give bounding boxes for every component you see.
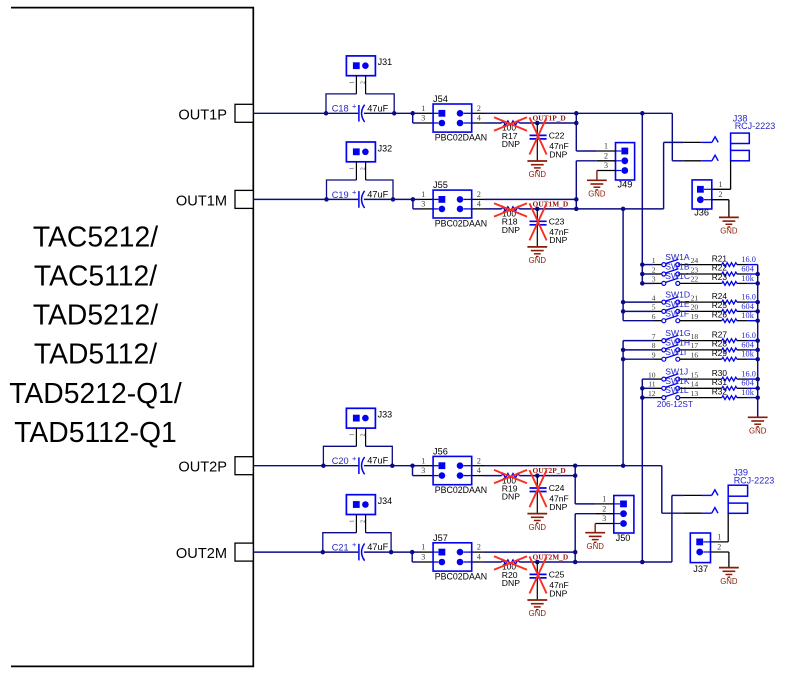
junction dots on OUT2M wire — [321, 550, 415, 555]
svg-text:4: 4 — [477, 114, 481, 123]
resistor R28 604 — [712, 339, 758, 352]
IC body outline TAC5212 family — [11, 8, 253, 667]
IC output pin OUT1M — [176, 190, 253, 209]
connector J37 2-pin header — [690, 532, 729, 573]
IC part-number text block — [9, 220, 182, 448]
bypass bracket wire around C20 — [323, 446, 392, 465]
svg-text:C19: C19 — [332, 190, 349, 200]
svg-text:3: 3 — [421, 200, 425, 209]
svg-text:18: 18 — [691, 332, 699, 341]
resistor R20 100 DNP — [502, 560, 521, 588]
ground at J50 pin3 — [585, 524, 605, 551]
svg-text:C18: C18 — [332, 104, 349, 114]
svg-text:47uF: 47uF — [367, 103, 388, 113]
svg-text:4: 4 — [477, 200, 481, 209]
switch SW1L — [642, 385, 722, 399]
svg-text:1: 1 — [349, 433, 356, 436]
svg-text:206-12ST: 206-12ST — [657, 400, 693, 409]
ground at resistor bus — [748, 417, 768, 435]
svg-text:OUT1M: OUT1M — [176, 193, 227, 209]
resistor R21 16.0 — [712, 253, 758, 266]
svg-text:RCJ-2223: RCJ-2223 — [735, 121, 776, 131]
svg-text:GND: GND — [720, 577, 738, 586]
capacitor C24 47nF DNP — [530, 473, 569, 513]
junction dot OUT2P_D column — [621, 463, 626, 468]
svg-text:PBC02DAAN: PBC02DAAN — [435, 485, 487, 495]
svg-text:C20: C20 — [332, 456, 349, 466]
connector J36 2-pin header — [692, 180, 729, 218]
svg-text:J33: J33 — [378, 410, 393, 420]
capacitor C20 47uF — [332, 454, 389, 475]
DNP X over R20 — [494, 556, 527, 569]
svg-text:GND: GND — [720, 227, 738, 236]
wire OUT1M_D down to SW1D-SW1F — [621, 209, 626, 321]
svg-text:DNP: DNP — [549, 502, 567, 512]
svg-text:PBC02DAAN: PBC02DAAN — [435, 132, 487, 142]
svg-text:3: 3 — [604, 161, 608, 170]
svg-text:1: 1 — [421, 456, 425, 465]
header J57 PBC02DAAN — [420, 533, 487, 582]
bypass bracket wire around C18 — [326, 94, 394, 113]
header J54 PBC02DAAN — [420, 94, 487, 142]
svg-text:22: 22 — [691, 275, 699, 284]
svg-text:3: 3 — [602, 514, 606, 523]
wire OUT2M_D up to SW1J-SW1L — [640, 379, 645, 562]
svg-text:GND: GND — [529, 609, 547, 618]
svg-text:1: 1 — [652, 256, 656, 265]
svg-text:2: 2 — [477, 543, 481, 552]
capacitor C18 47uF — [332, 101, 389, 122]
svg-text:J49: J49 — [618, 180, 633, 190]
switch SW1I — [623, 347, 722, 361]
wire OUT1M_D to J49 pin2 and RCA — [576, 142, 683, 209]
svg-text:J31: J31 — [378, 57, 393, 67]
junction dot OUT1P_D column — [640, 111, 645, 116]
svg-text:DNP: DNP — [502, 139, 520, 149]
svg-text:C23: C23 — [549, 216, 565, 226]
DNP X over R18 — [494, 203, 527, 216]
svg-text:2: 2 — [719, 190, 723, 199]
svg-text:OUT1P: OUT1P — [178, 107, 227, 123]
svg-text:J32: J32 — [378, 143, 393, 153]
switch SW1F — [623, 308, 722, 322]
wire net OUT1M — [253, 199, 420, 209]
svg-text:J37: J37 — [693, 564, 708, 574]
svg-text:GND: GND — [749, 427, 767, 436]
svg-text:RCJ-2223: RCJ-2223 — [734, 475, 775, 485]
svg-text:2: 2 — [359, 167, 366, 170]
resistor R27 16.0 — [712, 329, 758, 342]
wire net OUT2P — [253, 466, 420, 476]
ground at J36 pin2 — [719, 217, 739, 235]
svg-text:604: 604 — [741, 264, 754, 273]
svg-text:OUT2P: OUT2P — [178, 460, 227, 476]
switch SW1C — [642, 271, 722, 285]
svg-text:DNP: DNP — [549, 149, 567, 159]
svg-text:47uF: 47uF — [367, 456, 388, 466]
junction dot OUT1M_D column — [621, 207, 626, 212]
svg-text:C25: C25 — [549, 569, 565, 579]
svg-text:1: 1 — [602, 495, 606, 504]
jumper J34 — [346, 495, 392, 533]
connector J49 3-pin header — [597, 142, 635, 190]
capacitor C21 47uF — [332, 540, 389, 561]
svg-text:2: 2 — [359, 520, 366, 523]
jumper J31 — [346, 56, 392, 94]
svg-text:23: 23 — [691, 265, 699, 274]
svg-text:47uF: 47uF — [367, 542, 388, 552]
junction dot OUT2M_D column — [640, 560, 645, 565]
svg-text:GND: GND — [588, 190, 606, 199]
junction dots OUT1P_D — [574, 111, 579, 125]
svg-text:PBC02DAAN: PBC02DAAN — [435, 571, 487, 581]
resistor R18 100 DNP — [502, 207, 521, 235]
wire OUT2P_D rows — [485, 466, 576, 476]
svg-text:J54: J54 — [433, 94, 448, 104]
svg-text:10k: 10k — [741, 311, 754, 320]
svg-text:1: 1 — [349, 520, 356, 523]
svg-text:11: 11 — [648, 380, 656, 389]
svg-text:6: 6 — [652, 312, 656, 321]
ground at J49 pin3 — [587, 171, 607, 199]
resistor R30 16.0 — [712, 368, 758, 381]
svg-text:C22: C22 — [549, 130, 565, 140]
svg-text:DNP: DNP — [549, 588, 567, 598]
switch SW1J — [642, 367, 722, 381]
svg-text:3: 3 — [421, 553, 425, 562]
svg-text:16.0: 16.0 — [741, 293, 756, 302]
DNP X over R19 — [494, 470, 527, 483]
svg-text:10k: 10k — [741, 274, 754, 283]
switch SW1H — [623, 338, 722, 352]
svg-text:TAD5212-Q1/: TAD5212-Q1/ — [9, 377, 182, 409]
svg-text:SW1L: SW1L — [665, 385, 689, 395]
wire net OUT1P — [253, 113, 420, 123]
jumper J32 — [346, 142, 392, 180]
svg-text:TAC5112/: TAC5112/ — [34, 260, 157, 292]
svg-text:2: 2 — [477, 190, 481, 199]
svg-text:TAC5212/: TAC5212/ — [33, 220, 158, 252]
svg-text:1: 1 — [604, 142, 608, 151]
svg-text:C21: C21 — [332, 543, 349, 553]
wire resistor common bus — [755, 265, 760, 418]
svg-text:SW1C: SW1C — [665, 271, 690, 281]
wire OUT2M_D to J50 pin2 and RCA — [575, 495, 683, 562]
resistor R23 10k — [712, 272, 758, 285]
switch SW1E — [623, 299, 722, 313]
svg-text:9: 9 — [652, 351, 656, 360]
wire OUT2P_D to J50 pin1 and RCA — [575, 466, 683, 514]
resistor R31 604 — [712, 377, 758, 390]
svg-text:R23: R23 — [712, 272, 728, 282]
switch SW1A — [642, 252, 722, 266]
wire OUT2M_D rows — [485, 552, 576, 562]
resistor R32 10k — [712, 386, 758, 399]
capacitor C25 47nF DNP — [530, 560, 569, 600]
RCA jack J39 RCJ-2223 — [684, 467, 775, 542]
svg-text:SW1I: SW1I — [665, 347, 686, 357]
wire net OUT2M — [253, 552, 420, 562]
svg-text:3: 3 — [652, 275, 656, 284]
connector J50 3-pin header — [595, 495, 634, 543]
junction dots OUT2P_D — [573, 463, 578, 477]
resistor R29 10k — [712, 348, 758, 361]
svg-text:16.0: 16.0 — [741, 331, 756, 340]
svg-text:+: + — [352, 454, 357, 463]
svg-text:TAD5212/: TAD5212/ — [33, 299, 158, 331]
switch SW1G — [623, 328, 722, 342]
switch SW1B — [642, 262, 722, 276]
svg-text:PBC02DAAN: PBC02DAAN — [435, 218, 487, 228]
junction dots on OUT1M wire — [324, 197, 415, 202]
svg-text:7: 7 — [652, 332, 656, 341]
svg-text:13: 13 — [691, 389, 699, 398]
DNP X over R17 — [494, 117, 527, 130]
svg-text:2: 2 — [477, 104, 481, 113]
resistor R19 100 DNP — [502, 473, 521, 501]
wire OUT2P_D up to SW1G-SW1I — [621, 341, 626, 466]
header J55 PBC02DAAN — [420, 180, 487, 228]
DNP X over C24 — [530, 470, 547, 507]
svg-text:1: 1 — [421, 543, 425, 552]
svg-text:2: 2 — [602, 504, 606, 513]
svg-text:+: + — [352, 188, 357, 197]
svg-text:R26: R26 — [712, 309, 728, 319]
svg-text:1: 1 — [421, 190, 425, 199]
svg-text:J55: J55 — [433, 180, 448, 190]
resistor R22 604 — [712, 263, 758, 276]
svg-text:604: 604 — [741, 340, 754, 349]
svg-text:604: 604 — [741, 302, 754, 311]
svg-text:15: 15 — [691, 370, 699, 379]
wire OUT1P_D to J49 pin1 and RCA — [576, 113, 683, 161]
resistor R24 16.0 — [712, 291, 758, 304]
svg-text:10k: 10k — [741, 350, 754, 359]
svg-text:4: 4 — [477, 553, 481, 562]
svg-text:2: 2 — [359, 81, 366, 84]
svg-text:GND: GND — [529, 523, 547, 532]
svg-text:10: 10 — [648, 370, 656, 379]
header J56 PBC02DAAN — [420, 447, 487, 496]
svg-text:3: 3 — [421, 466, 425, 475]
svg-text:GND: GND — [587, 542, 605, 551]
RCA jack J38 RCJ-2223 — [683, 113, 775, 189]
svg-text:1: 1 — [719, 180, 723, 189]
svg-text:2: 2 — [359, 433, 366, 436]
svg-text:TAD5112/: TAD5112/ — [34, 338, 157, 370]
svg-text:DNP: DNP — [502, 578, 520, 588]
bypass bracket wire around C19 — [327, 180, 394, 199]
svg-text:C24: C24 — [549, 483, 565, 493]
svg-text:4: 4 — [652, 293, 656, 302]
ground below C25 — [527, 600, 547, 618]
svg-text:3: 3 — [421, 114, 425, 123]
svg-text:4: 4 — [477, 466, 481, 475]
bypass bracket wire around C21 — [323, 533, 391, 552]
svg-text:8: 8 — [652, 341, 656, 350]
svg-text:TAD5112-Q1: TAD5112-Q1 — [14, 416, 177, 448]
svg-text:DNP: DNP — [502, 225, 520, 235]
DNP X over C22 — [530, 118, 547, 155]
svg-text:J57: J57 — [433, 533, 448, 543]
IC output pin OUT2P — [178, 457, 253, 476]
svg-text:J34: J34 — [378, 496, 393, 506]
svg-text:20: 20 — [691, 303, 699, 312]
svg-text:OUT2M: OUT2M — [176, 546, 227, 562]
svg-text:SW1F: SW1F — [665, 308, 689, 318]
capacitor C23 47nF DNP — [530, 207, 569, 247]
ground below C24 — [527, 514, 547, 532]
resistor R17 100 DNP — [502, 121, 521, 149]
svg-text:16.0: 16.0 — [741, 255, 756, 264]
svg-text:1: 1 — [421, 104, 425, 113]
switch SW1D — [623, 290, 722, 304]
junction dots on OUT2P wire — [321, 463, 415, 468]
svg-text:J36: J36 — [694, 208, 709, 218]
svg-text:+: + — [352, 101, 357, 110]
switch SW1K — [642, 376, 722, 390]
jumper J33 — [346, 408, 392, 446]
svg-text:19: 19 — [691, 312, 699, 321]
junction dots OUT1M_D — [574, 197, 579, 211]
ground below C23 — [527, 247, 547, 265]
svg-text:GND: GND — [529, 256, 547, 265]
svg-text:12: 12 — [648, 389, 656, 398]
ground below C22 — [527, 161, 547, 179]
svg-text:5: 5 — [652, 303, 656, 312]
ground at J37 pin2 — [719, 568, 739, 586]
wire OUT1M_D rows — [485, 199, 577, 209]
capacitor C19 47uF — [332, 188, 389, 209]
svg-text:17: 17 — [691, 341, 699, 350]
svg-text:14: 14 — [691, 380, 699, 389]
svg-text:16.0: 16.0 — [741, 370, 756, 379]
resistor R26 10k — [712, 309, 758, 322]
svg-text:J56: J56 — [433, 447, 448, 457]
svg-text:1: 1 — [717, 532, 721, 541]
svg-text:R32: R32 — [712, 386, 728, 396]
svg-text:47uF: 47uF — [367, 189, 388, 199]
svg-text:2: 2 — [604, 151, 608, 160]
svg-text:2: 2 — [717, 543, 721, 552]
svg-text:DNP: DNP — [549, 235, 567, 245]
svg-text:GND: GND — [529, 170, 547, 179]
IC output pin OUT2M — [176, 543, 253, 562]
svg-text:1: 1 — [349, 167, 356, 170]
svg-text:+: + — [352, 540, 357, 549]
svg-text:2: 2 — [652, 265, 656, 274]
svg-text:24: 24 — [691, 256, 699, 265]
svg-text:R29: R29 — [712, 348, 728, 358]
IC output pin OUT1P — [178, 104, 253, 123]
svg-text:J50: J50 — [616, 533, 631, 543]
wire OUT1P_D down to SW1A-SW1C — [640, 113, 645, 285]
junction dots on OUT1P wire — [324, 111, 415, 116]
DNP X over C23 — [530, 203, 547, 240]
resistor R25 604 — [712, 300, 758, 313]
svg-text:604: 604 — [741, 379, 754, 388]
svg-text:2: 2 — [477, 456, 481, 465]
capacitor C22 47nF DNP — [530, 121, 569, 161]
svg-text:1: 1 — [349, 81, 356, 84]
svg-text:21: 21 — [691, 293, 699, 302]
wire OUT1P_D rows — [485, 113, 577, 123]
svg-text:10k: 10k — [741, 388, 754, 397]
svg-text:16: 16 — [691, 351, 699, 360]
junction dots OUT2M_D — [573, 550, 578, 564]
svg-text:DNP: DNP — [502, 492, 520, 502]
DNP X over C25 — [530, 557, 547, 594]
